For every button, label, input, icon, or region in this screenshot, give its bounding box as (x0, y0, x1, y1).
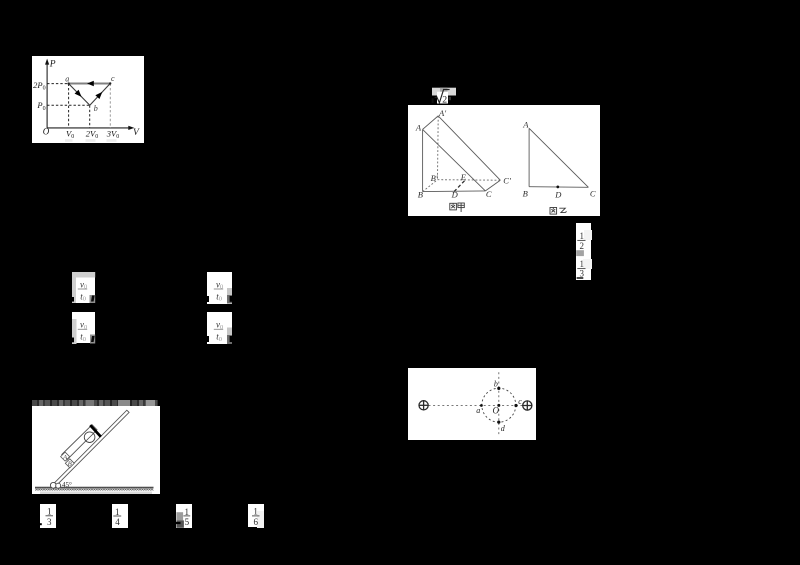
svg-text:c: c (111, 74, 115, 83)
svg-text:2P0: 2P0 (33, 79, 45, 91)
svg-text:V0: V0 (66, 128, 74, 140)
svg-text:3V0: 3V0 (106, 128, 119, 140)
svg-text:t0: t0 (80, 331, 86, 342)
svg-text:1: 1 (580, 231, 585, 241)
svg-text:B: B (523, 188, 528, 198)
svg-text:D: D (451, 189, 459, 199)
svg-text:P0: P0 (36, 100, 45, 112)
svg-text:6: 6 (253, 517, 258, 527)
svg-text:d: d (500, 424, 505, 433)
svg-text:2: 2 (580, 241, 585, 251)
svg-text:O: O (43, 126, 50, 136)
svg-text:5: 5 (185, 517, 190, 527)
svg-text:t0: t0 (216, 331, 222, 342)
svg-text:a: a (476, 406, 480, 415)
svg-text:1: 1 (253, 506, 258, 516)
svg-text:A: A (415, 122, 422, 132)
svg-text:A: A (522, 119, 529, 129)
svg-text:c: c (518, 397, 522, 406)
svg-text:B: B (68, 461, 72, 468)
svg-text:D: D (554, 189, 562, 199)
svg-text:1: 1 (115, 507, 120, 517)
svg-text:P: P (49, 59, 56, 69)
svg-text:1: 1 (47, 507, 52, 517)
svg-text:E: E (460, 172, 467, 182)
svg-text:A: A (62, 454, 67, 461)
svg-text:t0: t0 (80, 291, 86, 302)
svg-text:4: 4 (115, 517, 120, 527)
svg-text:C: C (590, 188, 596, 198)
svg-text:O: O (492, 405, 499, 415)
svg-text:3: 3 (47, 517, 52, 527)
svg-text:a: a (65, 74, 69, 83)
svg-text:b: b (493, 379, 497, 388)
svg-text:b: b (94, 104, 98, 113)
svg-text:B′: B′ (431, 173, 438, 183)
svg-text:1: 1 (184, 507, 189, 517)
svg-text:3: 3 (580, 268, 585, 278)
svg-text:C: C (486, 189, 492, 199)
svg-text:t0: t0 (216, 291, 222, 302)
svg-text:2V0: 2V0 (86, 128, 98, 140)
svg-text:A′: A′ (438, 107, 446, 117)
svg-text:45°: 45° (62, 481, 72, 489)
svg-text:V: V (133, 127, 140, 137)
svg-text:2: 2 (442, 94, 447, 105)
svg-text:C′: C′ (503, 175, 511, 185)
svg-text:B: B (418, 189, 423, 199)
